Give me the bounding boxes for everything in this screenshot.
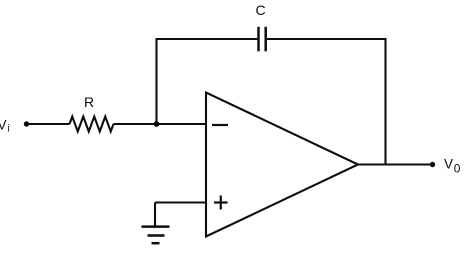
svg-text:R: R <box>84 94 94 110</box>
svg-text:V: V <box>444 157 453 172</box>
svg-text:V: V <box>0 118 7 133</box>
svg-text:i: i <box>8 124 10 135</box>
svg-text:0: 0 <box>454 162 461 176</box>
svg-text:C: C <box>255 2 265 18</box>
